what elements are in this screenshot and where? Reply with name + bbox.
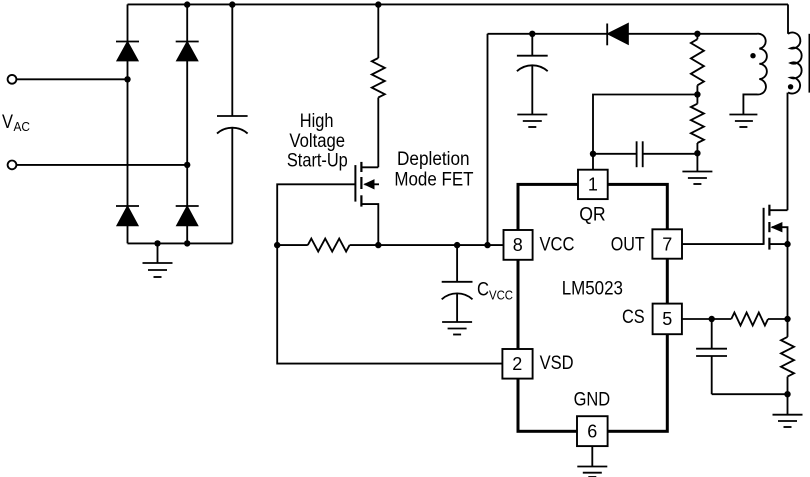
pin 7 box — [652, 229, 682, 258]
wire VCC diode row — [488, 33, 758, 35]
wire Q1 gate to VSD node — [277, 184, 502, 363]
ground pin 6 — [577, 446, 607, 477]
wire R6 to ground node — [787, 377, 789, 395]
svg-text:High: High — [300, 111, 334, 132]
capacitor C6 (CS filter) — [696, 319, 787, 394]
resistor R6 current sense — [781, 337, 794, 377]
ground auxiliary winding — [729, 115, 757, 128]
ground C5 — [517, 115, 547, 128]
svg-text:Depletion: Depletion — [397, 149, 470, 170]
wire Q2 source down to sense resistor — [787, 244, 789, 337]
node junction dots — [124, 1, 790, 397]
wire CS pin to filter — [682, 318, 731, 320]
diode D1 (bridge upper left) — [116, 42, 139, 61]
diode D4 (bridge lower right) — [176, 206, 199, 225]
svg-text:C: C — [477, 280, 489, 301]
ground bridge — [143, 243, 173, 277]
svg-text:1: 1 — [588, 175, 598, 195]
inductor T1 auxiliary winding — [743, 34, 766, 115]
diode D3 (bridge lower left) — [116, 206, 139, 225]
svg-text:2: 2 — [512, 354, 522, 374]
IC U1 LM5023 controller — [518, 184, 667, 431]
wire pin1 stub — [592, 154, 594, 170]
svg-text:LM5023: LM5023 — [562, 279, 623, 300]
transformer core — [809, 34, 810, 93]
wire bridge left leg — [127, 4, 129, 243]
svg-text:Mode FET: Mode FET — [394, 169, 473, 190]
diode D5 (VCC rectifier, pointing left) — [607, 24, 628, 46]
pin 1 box — [578, 170, 608, 199]
svg-text:VCC: VCC — [540, 234, 575, 255]
wire right drop from top rail to transformer primary — [787, 4, 789, 33]
ground CVCC — [442, 322, 472, 335]
node primary phase dot — [788, 84, 793, 89]
pin 6 box — [577, 416, 608, 446]
svg-text:VSD: VSD — [540, 353, 574, 374]
transistor Q2 power MOSFET — [764, 205, 788, 250]
resistor R2 (horizontal, VSD to VCC) — [308, 239, 350, 252]
transistor Q1 depletion-mode FET — [355, 162, 379, 245]
capacitor C1 bulk — [217, 4, 248, 243]
svg-text:QR: QR — [579, 205, 606, 226]
capacitor C5 (VCC reservoir top) — [517, 34, 548, 115]
ground CS network — [773, 394, 803, 427]
wire Q2 drain to transformer — [787, 93, 789, 211]
svg-text:Voltage: Voltage — [289, 131, 345, 152]
wire bridge right leg — [186, 4, 188, 243]
svg-text:AC: AC — [14, 119, 31, 134]
pin 2 box — [502, 349, 532, 379]
pin 5 box — [653, 304, 682, 335]
capacitor CVCC — [442, 245, 473, 322]
wire bridge bottom rail — [128, 242, 233, 244]
resistor R1 high-voltage start-up (vertical) — [372, 4, 385, 167]
svg-text:7: 7 — [662, 234, 672, 254]
wire VCC rail — [277, 244, 503, 246]
wire top rail — [128, 3, 789, 5]
svg-text:GND: GND — [574, 390, 611, 411]
resistor R5 (CS filter) — [731, 313, 768, 326]
terminal AC input 2 — [8, 161, 17, 170]
svg-text:5: 5 — [662, 309, 672, 329]
svg-text:OUT: OUT — [611, 235, 645, 256]
svg-text:Start-Up: Start-Up — [287, 151, 348, 172]
resistor R4 (QR divider lower) — [691, 95, 704, 154]
resistor R3 (QR divider upper) — [691, 34, 704, 95]
terminal AC input 1 — [8, 75, 17, 84]
pin 8 box — [504, 230, 533, 260]
diode D2 (bridge upper right) — [176, 42, 199, 61]
inductor T1 primary winding — [788, 33, 802, 94]
wire OUT to Q2 gate — [682, 243, 764, 245]
wire AC line 1 — [16, 78, 127, 80]
svg-text:VCC: VCC — [489, 288, 513, 303]
ground QR divider — [682, 153, 712, 184]
wire AC line 2 — [16, 164, 187, 166]
capacitor C2 (QR) — [593, 141, 697, 167]
wire R5 to sense node — [768, 318, 788, 320]
svg-text:CS: CS — [622, 307, 645, 328]
wire QR tap — [593, 95, 697, 154]
svg-text:6: 6 — [587, 422, 597, 442]
svg-text:8: 8 — [513, 235, 523, 255]
node auxiliary phase dot — [750, 53, 755, 58]
wire VCC node up to diode row — [487, 34, 489, 245]
svg-text:V: V — [2, 112, 13, 133]
